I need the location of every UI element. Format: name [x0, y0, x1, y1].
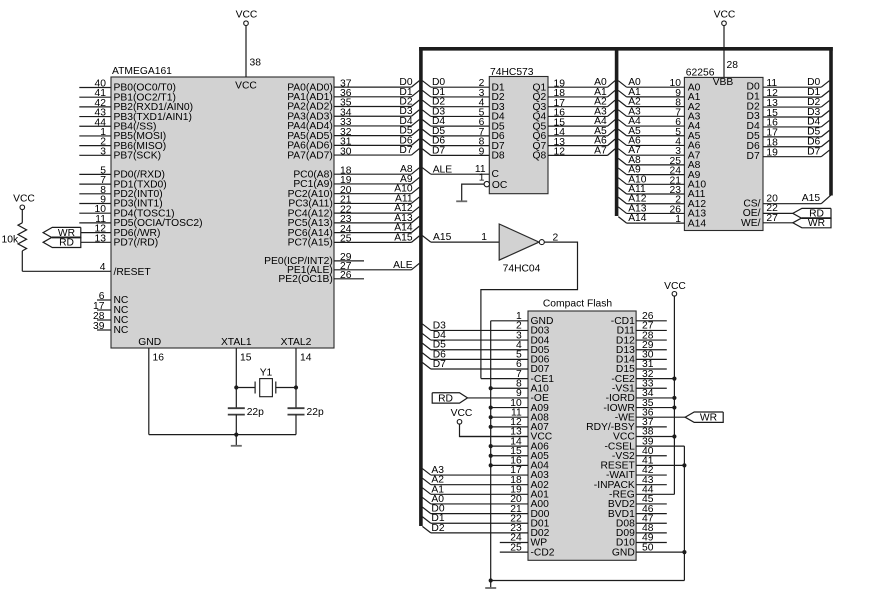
J1 pin 29 D13: [616, 340, 667, 356]
WR flag tag at J1 -WE: [685, 412, 723, 424]
U3 pin 19 D7 data line: [747, 147, 830, 162]
U2 pin 16 Q4 output net A3: [533, 106, 615, 122]
svg-text:D7: D7: [747, 151, 760, 162]
crystal Y1: [234, 367, 298, 396]
IC U3 62256 SRAM body: [684, 67, 763, 230]
ground symbol below crystal: [231, 435, 242, 446]
J1 pin 18 A02: [422, 475, 549, 491]
resistor R1 10k pull-up zigzag: [2, 223, 27, 251]
wire resistor to /RESET: [21, 251, 23, 271]
svg-text:1: 1: [481, 232, 487, 243]
svg-text:13: 13: [95, 233, 107, 244]
J1 pin 38 VCC: [613, 427, 676, 443]
svg-text:74HC573: 74HC573: [490, 67, 534, 78]
svg-text:D8: D8: [492, 151, 505, 162]
wire U4 output to CF -CE1: [481, 242, 578, 378]
U2 pin 17 Q3 output net A2: [533, 97, 615, 113]
svg-text:19: 19: [766, 148, 778, 159]
U1 pin 25 PC7(A15) net A15: [288, 232, 420, 248]
J1 pin 50 GND: [612, 542, 687, 558]
J1 pin 41 RESET: [600, 456, 686, 472]
U3 pin 28 VBB power pin: [713, 10, 739, 89]
U3 pin 8 A2 address input: [618, 97, 700, 113]
U1 pin 40 PB0(OC0/T0): [79, 79, 176, 94]
svg-text:4: 4: [100, 262, 106, 273]
VCC symbol for pull-up: [13, 194, 35, 223]
bus: left vertical bus (D0-D7/A8-A15/ALE): [419, 47, 423, 526]
svg-text:D7: D7: [432, 145, 445, 156]
VCC symbol at J1 pin 13: [451, 408, 528, 436]
svg-text:GND: GND: [612, 547, 635, 558]
svg-text:RD: RD: [59, 238, 74, 249]
svg-text:RD: RD: [438, 393, 453, 404]
U1 pin 26 PE2(OC1B): [278, 270, 364, 285]
U1 pin 2 PB6(MISO): [79, 137, 166, 152]
svg-text:XTAL2: XTAL2: [281, 337, 312, 348]
svg-text:1: 1: [479, 173, 485, 184]
U2 pin 6 D5 input net D4: [422, 116, 505, 132]
U1 pin VCC (38) power pin top: [235, 10, 261, 92]
svg-text:D2: D2: [431, 523, 444, 534]
U1 pin 42 PB2(RXD1/AIN0): [79, 98, 193, 113]
svg-text:PB7(SCK): PB7(SCK): [114, 151, 162, 162]
svg-text:OC: OC: [492, 180, 508, 191]
J1 pin 43 -INPACK: [594, 475, 667, 491]
J1 pin 8 A10: [489, 378, 549, 394]
svg-text:39: 39: [93, 321, 105, 332]
U1 pin 28 NC: [93, 311, 129, 326]
J1 pin 14 A06: [489, 436, 549, 452]
U1 pin 30 PA7(AD7) net D7: [287, 145, 419, 161]
J1 pin 3 D04: [422, 330, 549, 346]
U2 pin 8 D7 input net D6: [422, 136, 505, 152]
U1 pin 11 PD5(OCIA/TOSC2): [79, 214, 202, 229]
J1 pin 28 D12: [616, 330, 667, 346]
bottom ground wire: [491, 580, 685, 582]
svg-text:26: 26: [340, 270, 352, 281]
svg-text:D7: D7: [399, 145, 412, 156]
U1 pin 13 PD7(/RD): [81, 233, 158, 248]
svg-text:VCC: VCC: [235, 81, 257, 92]
U2 pin 15 Q5 output net A4: [533, 116, 615, 132]
svg-text:A15: A15: [802, 193, 821, 204]
svg-text:NC: NC: [114, 325, 129, 336]
svg-text:VCC: VCC: [13, 194, 35, 205]
ground symbol below J1: [485, 578, 496, 588]
U3 pin 17 D5 data line: [747, 127, 830, 142]
bus: middle vertical bus (A0-A14): [615, 47, 619, 216]
svg-text:WR: WR: [700, 413, 717, 424]
U2 pin 11 C latch-enable net ALE: [422, 164, 499, 180]
svg-text:ALE: ALE: [393, 260, 413, 271]
J1 pin 22 D01: [422, 513, 549, 529]
U1 pin 16 GND bottom: [138, 337, 164, 435]
U1 pin 15 XTAL1: [221, 337, 252, 408]
svg-text:10k: 10k: [2, 235, 19, 246]
svg-text:27: 27: [766, 213, 778, 224]
U1 pin 3 PB7(SCK): [79, 146, 161, 161]
U2 pin 5 D4 input net D3: [422, 106, 505, 122]
U1 pin 39 NC: [93, 321, 129, 336]
U1 pin 27 PE1(ALE): [287, 260, 419, 276]
WR flag tag at PD6: [43, 227, 81, 239]
svg-text:GND: GND: [138, 337, 161, 348]
U1 pin 32 PA5(AD5) net D5: [287, 126, 419, 142]
svg-text:VCC: VCC: [714, 10, 736, 21]
svg-text:22p: 22p: [247, 407, 264, 418]
connector J1 Compact Flash body: [528, 298, 636, 560]
J1 pin 26 -CD1: [611, 311, 667, 327]
svg-text:A7: A7: [594, 145, 607, 156]
svg-text:PA7(AD7): PA7(AD7): [287, 150, 333, 161]
svg-text:XTAL1: XTAL1: [221, 337, 252, 348]
svg-text:14: 14: [300, 353, 312, 364]
U1 pin 41 PB1(OC2/T1): [79, 88, 176, 103]
RD flag tag at U3 OE/: [793, 208, 831, 219]
J1 pin 19 A01: [422, 484, 549, 500]
svg-text:PE2(OC1B): PE2(OC1B): [278, 274, 332, 285]
J1 pin 36 -WE: [615, 407, 685, 423]
bus: top horizontal address/data bus bar: [419, 47, 833, 51]
U1 pin 9 PD3(INT1): [79, 195, 162, 210]
svg-text:30: 30: [340, 146, 352, 157]
svg-text:38: 38: [250, 58, 262, 69]
U2 pin 9 D8 input net D7: [422, 145, 505, 161]
U2 pin 18 Q2 output net A1: [533, 87, 615, 103]
U3 pin 21 A10 address input: [618, 174, 706, 190]
J1 pin 25 -CD2: [500, 542, 555, 558]
svg-text:VCC: VCC: [664, 281, 686, 292]
U2 pin 14 Q6 output net A5: [533, 126, 615, 142]
U3 pin 10 A0 address input: [618, 77, 700, 93]
J1 pin 4 D05: [422, 340, 549, 356]
svg-text:C: C: [492, 169, 500, 180]
U1 pin 33 PA4(AD4) net D4: [287, 116, 419, 132]
svg-text:VBB: VBB: [713, 77, 734, 88]
inverter U4 74HC04 triangle: [499, 224, 540, 274]
U2 pin 13 Q7 output net A6: [533, 136, 615, 152]
svg-text:3: 3: [100, 146, 106, 157]
U3 pin 2 A12 address input: [618, 194, 706, 210]
U3 pin 1 A14 address input: [618, 213, 706, 229]
svg-text:9: 9: [479, 146, 485, 157]
U3 pin 3 A7 address input: [618, 145, 700, 161]
wire GND to crystal caps bottom: [149, 433, 296, 437]
J1 pin 42 -WAIT: [606, 465, 667, 481]
U2 pin 4 D3 input net D2: [422, 97, 505, 113]
U3 pin 7 A3 address input: [618, 106, 700, 122]
U1 pin 17 NC: [93, 301, 129, 316]
J1 pin 5 D06: [422, 349, 549, 365]
J1 pin 46 BVD1: [608, 504, 667, 520]
U1 pin 23 PC5(A13) net A13: [288, 213, 420, 229]
U3 pin 26 A13 address input: [618, 203, 706, 219]
U2 pin 3 D2 input net D1: [422, 87, 505, 103]
J1 pin 7 -CE1: [481, 369, 554, 385]
svg-text:WR: WR: [808, 218, 825, 229]
U1 pin 10 PD4(TOSC1): [79, 204, 174, 219]
IC U1 ATMEGA161 body: [111, 66, 334, 348]
inverter U4 74HC04 input net A15 from bus: [422, 232, 499, 243]
J1 pin 27 D11: [617, 321, 667, 337]
U3 pin 20 CS/ chip select net A15: [743, 193, 831, 209]
svg-text:PC7(A15): PC7(A15): [288, 238, 333, 249]
U1 pin 21 PC3(A11) net A11: [288, 193, 419, 209]
svg-text:D7: D7: [433, 359, 446, 370]
svg-text:25: 25: [340, 234, 352, 245]
svg-text:Compact Flash: Compact Flash: [543, 298, 613, 309]
J1 pin 9 -OE: [468, 388, 549, 404]
U2 pin 19 Q1 output net A0: [533, 77, 615, 93]
svg-text:15: 15: [240, 353, 252, 364]
inverter U4 output bubble pin 2: [539, 233, 558, 245]
U1 pin 1 PB5(MOSI): [79, 127, 166, 142]
svg-text:-CD2: -CD2: [531, 547, 555, 558]
capacitor C2 22p at XTAL2: [288, 407, 324, 435]
U1 pin 18 PC0(A8) net A8: [293, 164, 419, 180]
U1 pin 12 PD6(/WR): [81, 224, 161, 239]
J1 pin 32 -CE2: [611, 369, 676, 385]
J1 pin 15 A05: [489, 446, 549, 462]
U2 pin 1 OC output-enable with inversion bubble: [462, 173, 508, 201]
U1 pin 5 PD0(/RXD): [79, 165, 165, 180]
U1 pin 37 PA0(AD0) net D0: [287, 77, 419, 93]
U3 pin 4 A6 address input: [618, 135, 700, 151]
U2 pin 2 D1 input net D0: [422, 77, 505, 93]
U1 pin 35 PA2(AD2) net D2: [287, 97, 419, 113]
bus: right vertical bus (D0-D7/A15): [829, 47, 833, 196]
J1 pin 11 A08: [489, 407, 549, 423]
J1 pin 40 -VS2: [612, 446, 667, 462]
J1 pin 23 D02: [422, 523, 549, 539]
U1 pin 19 PC1(A9) net A9: [293, 174, 419, 190]
svg-text:Q8: Q8: [533, 151, 547, 162]
J1 pin 30 D14: [616, 350, 667, 366]
svg-text:A15: A15: [394, 232, 413, 243]
svg-text:VCC: VCC: [451, 408, 473, 419]
capacitor C1 22p at XTAL1: [228, 407, 264, 435]
VCC tie line on J1 right: [664, 281, 686, 495]
U1 pin 20 PC2(A10) net A10: [288, 184, 420, 200]
svg-text:/RESET: /RESET: [114, 267, 152, 278]
J1 pin 35 -IOWR: [603, 398, 676, 414]
J1 pin 37 RDY/-BSY: [586, 417, 667, 433]
J1 pin 48 D09: [616, 523, 667, 539]
U3 pin 23 A11 address input: [618, 184, 705, 200]
J1 pin 2 D03: [422, 320, 549, 336]
U3 pin 11 D0 data line: [747, 77, 830, 92]
svg-text:VCC: VCC: [236, 10, 258, 21]
J1 pin 34 -IORD: [606, 388, 677, 404]
svg-text:A14: A14: [688, 218, 707, 229]
WR flag tag at U3 WE/: [793, 218, 831, 229]
J1 pin 16 A04: [489, 456, 549, 472]
U3 pin 15 D3 data line: [747, 107, 830, 122]
J1 pin 49 D10: [616, 533, 667, 549]
U1 pin 34 PA3(AD3) net D3: [287, 106, 419, 122]
J1 pin 31 D15: [616, 359, 667, 375]
ground tie line on J1 left (unused address pins): [490, 321, 492, 581]
svg-text:22p: 22p: [307, 407, 324, 418]
J1 pin 33 -VS1: [612, 378, 667, 394]
svg-text:A14: A14: [628, 213, 647, 224]
svg-text:D7: D7: [807, 147, 820, 158]
U1 pin 14 XTAL2: [281, 337, 312, 408]
U1 pin 7 PD1(TXD0): [79, 175, 166, 190]
J1 pin 47 D08: [616, 513, 667, 529]
svg-text:WE/: WE/: [741, 218, 761, 229]
svg-text:28: 28: [727, 60, 739, 71]
ground symbol at U2 OC: [456, 200, 467, 202]
svg-text:Y1: Y1: [260, 367, 273, 378]
U3 pin 24 A9 address input: [618, 165, 700, 181]
RD flag tag at PD7: [43, 237, 81, 249]
U1 pin 43 PB3(TXD1/AIN1): [79, 108, 192, 123]
J1 pin 21 D00: [422, 504, 549, 520]
svg-text:16: 16: [153, 353, 165, 364]
U3 pin 25 A8 address input: [618, 155, 700, 171]
U2 pin 12 Q8 output net A7: [533, 145, 615, 161]
U1 pin 44 PB4(/SS): [79, 117, 156, 132]
J1 pin 39 -CSEL: [604, 436, 684, 452]
U3 pin 13 D2 data line: [747, 97, 830, 112]
U3 pin 18 D6 data line: [747, 137, 830, 152]
J1 pin 10 A09: [489, 398, 549, 414]
svg-text:1: 1: [675, 214, 681, 225]
J1 pin 17 A03: [422, 465, 549, 481]
J1 pin 45 BVD2: [608, 494, 667, 510]
IC U2 74HC573 latch body: [489, 67, 548, 194]
U2 pin 7 D6 input net D5: [422, 126, 505, 142]
U1 pin 29 PE0(ICP/INT2): [264, 252, 364, 267]
U1 pin 36 PA1(AD1) net D1: [287, 87, 419, 103]
U1 pin 22 PC4(A12) net A12: [288, 203, 420, 219]
U1 pin 31 PA6(AD6) net D6: [287, 135, 419, 151]
J1 pin 6 D07: [422, 359, 549, 375]
J1 pin 24 WP: [500, 533, 547, 549]
U3 pin 22 OE/ output enable: [743, 203, 793, 219]
J1 pin 12 A07: [489, 417, 549, 433]
J1 pin 20 A00: [422, 494, 549, 510]
svg-text:12: 12: [554, 147, 566, 158]
ground tie line on J1 right: [683, 446, 685, 580]
U1 pin 8 PD2(INT0): [79, 185, 162, 200]
U3 pin 6 A4 address input: [618, 116, 700, 132]
svg-text:PD7(/RD): PD7(/RD): [114, 238, 159, 249]
U3 pin 16 D4 data line: [747, 117, 830, 132]
U3 pin 12 D1 data line: [747, 87, 830, 102]
U3 pin 5 A5 address input: [618, 126, 700, 142]
U1 pin 24 PC6(A14) net A14: [288, 223, 420, 239]
J1 pin 1 GND: [491, 311, 554, 327]
svg-text:ATMEGA161: ATMEGA161: [112, 66, 172, 77]
U1 pin 4 /RESET: [22, 262, 151, 278]
svg-text:74HC04: 74HC04: [503, 263, 541, 274]
J1 pin 13 VCC: [460, 427, 553, 443]
RD flag tag at J1 -OE: [432, 393, 467, 405]
svg-text:62256: 62256: [686, 67, 715, 78]
U3 pin 27 WE/ write enable: [741, 213, 793, 229]
U1 pin 6 NC: [97, 291, 129, 306]
J1 pin 44 -REG: [609, 485, 674, 501]
U3 pin 9 A1 address input: [618, 87, 700, 103]
